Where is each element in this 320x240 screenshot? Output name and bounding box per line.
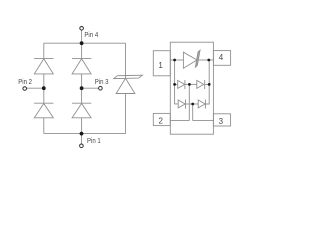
svg-text:Pin 2: Pin 2 [18,77,32,86]
svg-text:4: 4 [219,53,224,62]
svg-text:3: 3 [219,117,224,126]
svg-text:Pin 1: Pin 1 [87,136,101,145]
svg-text:1: 1 [158,61,163,70]
svg-text:2: 2 [158,117,163,126]
svg-text:Pin 3: Pin 3 [95,77,109,86]
svg-text:Pin 4: Pin 4 [84,30,98,39]
